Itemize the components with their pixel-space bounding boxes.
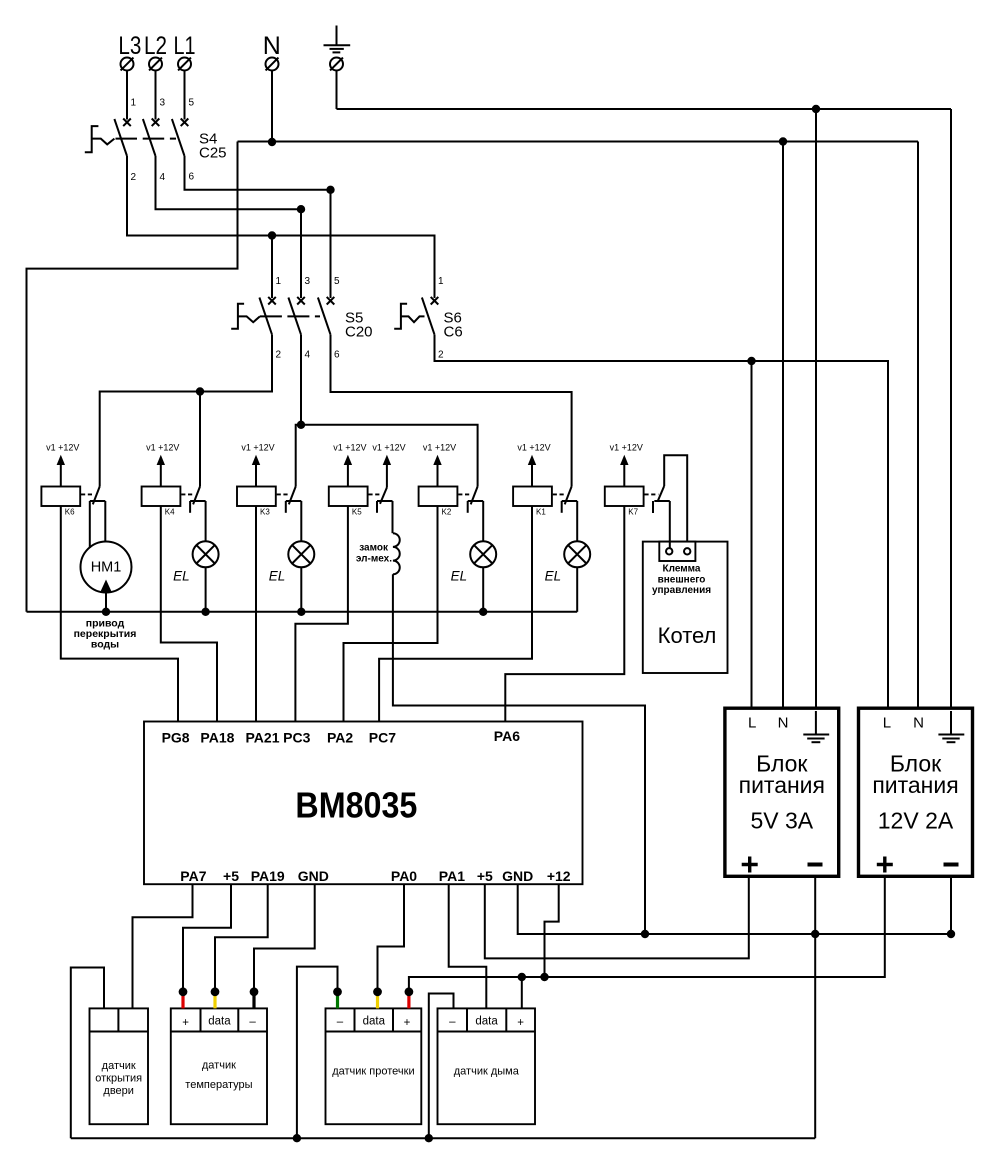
svg-text:температуры: температуры — [185, 1079, 252, 1091]
svg-text:PA0: PA0 — [391, 868, 417, 884]
wire S6 output to PSU L inputs — [435, 335, 889, 709]
breaker S6 C6 1-pole — [394, 297, 462, 341]
svg-text:PA21: PA21 — [246, 730, 280, 746]
dashed link K1 — [553, 493, 566, 495]
ground rail (bottom bus) — [71, 1137, 815, 1139]
svg-text:K6: K6 — [65, 508, 75, 517]
svg-text:data: data — [208, 1016, 231, 1028]
BM8035 bottom pin labels — [180, 868, 570, 884]
svg-text:K5: K5 — [352, 508, 362, 517]
svg-text:3: 3 — [160, 98, 166, 109]
contact fixed bar K6 — [90, 500, 106, 502]
svg-text:5: 5 — [189, 98, 195, 109]
+12V arrow for K2 coil — [423, 442, 456, 486]
svg-text:N: N — [778, 715, 789, 732]
wire down to PSU1 L input — [751, 361, 753, 708]
contact fixed bar K1 — [562, 500, 578, 502]
junction S6 output to PSU1 L — [747, 357, 755, 365]
wire K7 contact output to boiler terminal 1 — [669, 501, 671, 548]
svg-text:N: N — [263, 32, 281, 60]
svg-text:L1: L1 — [174, 32, 196, 60]
svg-text:EL: EL — [545, 569, 562, 584]
svg-text:L: L — [748, 715, 756, 732]
svg-text:питания: питания — [872, 772, 958, 798]
svg-text:K1: K1 — [536, 508, 546, 517]
lamp EL (K2 load) — [451, 501, 497, 612]
wire K5 coil to PC3 — [295, 506, 348, 722]
svg-text:12V 2A: 12V 2A — [878, 808, 954, 834]
contact fixed bar K2 — [468, 500, 484, 502]
wire N to PSU2 N input — [917, 142, 919, 709]
dashed link K7 — [644, 493, 658, 495]
relay coil K5 — [329, 487, 368, 517]
contact blade K4 — [193, 487, 200, 505]
svg-text:6: 6 — [189, 172, 195, 183]
wire K2 coil to PA2 — [344, 506, 438, 722]
wire L1 terminal to S4 pole3 — [184, 71, 186, 120]
svg-text:v1 +12V: v1 +12V — [372, 442, 405, 452]
contact fixed bar K3 — [286, 500, 302, 502]
leak sensor data stub (yellow) — [373, 987, 382, 1008]
junction L1 phase corner — [326, 186, 334, 194]
svg-text:GND: GND — [298, 868, 329, 884]
junction L3 phase to S5 pole1 — [268, 231, 276, 239]
wire PSU2 minus down — [950, 876, 952, 934]
svg-text:v1 +12V: v1 +12V — [241, 442, 274, 452]
wire PA1 to smoke sensor data — [449, 884, 487, 1008]
K7 NC stub — [652, 501, 654, 513]
+12V arrow for K5 coil — [333, 442, 366, 486]
node L2 terminal — [144, 32, 167, 71]
wire smoke sensor minus to ground rail — [429, 994, 454, 1139]
BM8035 top pin labels — [162, 728, 521, 746]
svg-text:эл-мех.: эл-мех. — [356, 554, 392, 565]
svg-text:питания: питания — [739, 772, 825, 798]
wire PE terminal down — [336, 71, 338, 110]
lamp EL (K3 load) — [269, 501, 315, 612]
NC stub K5 — [376, 501, 378, 513]
svg-text:2: 2 — [131, 172, 137, 183]
svg-text:+: + — [404, 1017, 411, 1029]
wire GND to PSU minus bus — [518, 884, 951, 934]
dashed link K4 — [181, 493, 194, 495]
wire N horizontal bus — [238, 141, 919, 143]
wire L3 terminal to S4 pole1 — [126, 71, 128, 120]
dashed link K3 — [277, 493, 290, 495]
+12V arrow for K1 coil — [517, 442, 550, 486]
junction L2 phase corner — [297, 205, 305, 213]
S4 pin numbers 1 3 5 — [131, 98, 195, 109]
svg-text:5V 3A: 5V 3A — [750, 808, 813, 834]
+12V arrow to K5 contact — [372, 442, 405, 487]
svg-text:+: + — [517, 1017, 524, 1029]
svg-text:Котел: Котел — [658, 623, 717, 648]
wire S4 pole3 output (L1 phase) — [185, 156, 331, 190]
node N terminal — [263, 32, 281, 71]
wire K4 coil to PA18 — [161, 506, 217, 722]
junction N — [268, 138, 276, 146]
junction lamp K3 to bus — [297, 608, 305, 616]
breaker S4 C25 3-pole — [85, 119, 227, 162]
svg-text:+5: +5 — [477, 868, 493, 884]
+12V arrow for K3 coil — [241, 442, 274, 486]
wire PSU1 minus down to ground rail — [814, 876, 816, 1138]
wire door sensor to ground rail — [71, 968, 104, 1139]
ground symbol (PE input) — [324, 26, 351, 53]
relay coil K3 — [237, 487, 276, 517]
svg-text:data: data — [475, 1016, 498, 1028]
svg-text:C20: C20 — [345, 324, 373, 341]
wire PE horizontal — [337, 108, 952, 110]
wire N to PSU1 N input — [782, 142, 784, 709]
contact fixed bar K7 — [654, 500, 670, 502]
temp sensor plus stub (red) — [179, 987, 188, 1008]
wire solenoid return to minus bus — [393, 574, 645, 934]
wire smoke sensor plus down — [521, 977, 523, 1008]
junction PSU1 minus on bus — [811, 930, 819, 938]
svg-text:L: L — [883, 715, 891, 732]
S4 pin numbers 2 4 6 — [131, 172, 195, 184]
svg-text:–: – — [337, 1016, 344, 1028]
wire S5 pole4 output down — [300, 335, 302, 425]
node PE terminal — [330, 58, 343, 71]
wire +5 to PSU1 plus — [485, 876, 749, 958]
junction +12 on 12V bus — [540, 973, 548, 981]
contact blade K6 — [93, 487, 100, 505]
svg-text:data: data — [363, 1016, 386, 1028]
NC stub K3 — [285, 501, 287, 513]
svg-text:PC7: PC7 — [369, 730, 396, 746]
leak sensor plus stub (red) — [405, 987, 414, 1008]
relay common bus (N) — [27, 611, 578, 613]
temp sensor data stub (yellow) — [211, 987, 220, 1008]
relay coil K1 — [513, 487, 552, 517]
svg-text:EL: EL — [451, 569, 468, 584]
svg-text:K3: K3 — [260, 508, 270, 517]
wire N terminal down — [271, 71, 273, 143]
lamp EL (K4 load) — [173, 501, 219, 612]
NC stub K4 — [189, 501, 191, 513]
svg-text:L3: L3 — [118, 32, 141, 60]
svg-text:открытия: открытия — [95, 1073, 142, 1085]
svg-text:–: – — [249, 1016, 256, 1028]
wire K1 coil to PC7 — [379, 506, 532, 722]
svg-text:C6: C6 — [444, 324, 463, 341]
contact blade K2 — [471, 487, 478, 505]
junction lamp K4 to bus — [201, 608, 209, 616]
S5 pin numbers 2 4 6 — [276, 350, 341, 361]
wire S4 pole2 output (L2 phase) — [156, 156, 302, 209]
svg-text:воды: воды — [91, 639, 119, 651]
node L1 terminal — [174, 32, 196, 71]
relay coil K4 — [142, 487, 181, 517]
svg-text:внешнего: внешнего — [658, 575, 706, 586]
12V bus from leak sensor plus to PSU2 plus — [409, 876, 885, 995]
svg-text:1: 1 — [276, 276, 282, 287]
contact blade K7 — [658, 486, 665, 502]
svg-text:6: 6 — [334, 350, 340, 361]
door opening sensor box — [90, 1008, 149, 1124]
wire PA19 to temp sensor data — [215, 884, 268, 995]
+12V arrow for K7 coil — [610, 442, 643, 486]
wire to K2 contact — [301, 425, 478, 487]
junction leak sensor minus on rail — [293, 1134, 301, 1142]
junction S5 pole4 branch — [297, 421, 305, 429]
wire S4 pole1 output (L3 phase) — [127, 156, 435, 298]
svg-text:1: 1 — [131, 98, 137, 109]
svg-text:BM8035: BM8035 — [295, 785, 417, 826]
svg-text:GND: GND — [502, 868, 533, 884]
svg-text:PA6: PA6 — [494, 728, 520, 744]
junction lamp K2 to bus — [479, 608, 487, 616]
junction smoke sensor plus on 12V bus — [518, 973, 526, 981]
NC stub K1 — [561, 501, 563, 513]
svg-text:K2: K2 — [442, 508, 452, 517]
svg-text:управления: управления — [652, 585, 711, 596]
svg-text:PA2: PA2 — [327, 730, 353, 746]
S5 pin numbers 1 3 5 — [276, 276, 341, 287]
contact blade K1 — [565, 487, 572, 505]
svg-text:EL: EL — [269, 569, 286, 584]
contact blade K3 — [289, 487, 296, 505]
wire N branch to relay common bus — [27, 142, 238, 612]
svg-text:4: 4 — [160, 172, 166, 183]
svg-text:4: 4 — [305, 350, 311, 361]
contact fixed bar K5 — [377, 500, 393, 502]
power supply 1 (5V 3A) box — [725, 708, 839, 876]
svg-text:PA7: PA7 — [180, 868, 206, 884]
svg-text:датчик: датчик — [102, 1060, 136, 1072]
dashed link K5 — [368, 493, 381, 495]
wire PA7 to door sensor — [133, 884, 193, 1008]
relay coil K7 — [605, 487, 644, 517]
svg-text:PG8: PG8 — [162, 730, 190, 746]
wire L1 phase down to S5 pole5 — [330, 190, 332, 298]
wire L3 phase down to S5 pole1 — [271, 236, 273, 299]
junction PSU2 minus on bus — [947, 930, 955, 938]
node L3 terminal — [118, 32, 141, 71]
+12V arrow for K6 coil — [46, 442, 79, 486]
wire K6 coil to PG8 — [61, 506, 178, 722]
solenoid замок эл-мех (K5 load) — [356, 501, 400, 574]
svg-text:PA1: PA1 — [439, 868, 465, 884]
svg-text:PA18: PA18 — [200, 730, 234, 746]
svg-text:+: + — [182, 1017, 189, 1029]
leak sensor minus stub (green) — [333, 987, 342, 1008]
controller BM8035 box — [144, 722, 583, 885]
svg-text:K7: K7 — [628, 508, 638, 517]
svg-text:2: 2 — [276, 350, 282, 361]
wire PE to PSU2 ground input — [950, 109, 952, 708]
power supply 2 (12V 2A) box — [859, 708, 973, 876]
svg-text:v1 +12V: v1 +12V — [423, 442, 456, 452]
temp sensor minus stub (black) — [250, 987, 259, 1008]
svg-text:Клемма: Клемма — [663, 564, 701, 575]
dashed link K2 — [458, 493, 472, 495]
lamp EL (K1 load) — [545, 501, 591, 612]
junction N to PSU1 — [779, 137, 787, 145]
junction HM1 to bus — [102, 608, 110, 616]
svg-text:3: 3 — [305, 276, 311, 287]
svg-text:EL: EL — [173, 569, 190, 584]
temperature sensor box — [171, 1008, 267, 1124]
wire GND to temp sensor minus — [254, 884, 315, 995]
svg-text:2: 2 — [438, 350, 444, 361]
smoke sensor box — [438, 1008, 536, 1124]
junction to K4 contact — [196, 387, 204, 395]
contact fixed bar K4 — [190, 500, 206, 502]
svg-text:C25: C25 — [199, 145, 227, 162]
+12V arrow for K4 coil — [146, 442, 179, 486]
svg-text:–: – — [449, 1016, 456, 1028]
wire PA0 to leak sensor data — [378, 884, 405, 995]
wire down to K4 contact — [199, 392, 201, 487]
breaker S5 C20 3-pole — [231, 297, 372, 341]
wire leak sensor minus to ground rail — [297, 967, 338, 1139]
relay coil K2 — [419, 487, 458, 517]
svg-text:HM1: HM1 — [91, 560, 122, 576]
svg-text:v1 +12V: v1 +12V — [517, 442, 550, 452]
svg-text:N: N — [913, 715, 924, 732]
dashed link K6 — [81, 493, 94, 495]
NC stub K2 — [467, 501, 469, 513]
junction smoke sensor minus on rail — [425, 1134, 433, 1142]
svg-text:датчик протечки: датчик протечки — [332, 1066, 414, 1078]
svg-text:замок: замок — [359, 543, 389, 554]
contact blade K5 — [380, 488, 387, 504]
svg-text:двери: двери — [103, 1085, 134, 1097]
wire S5 pole2 output to K6 contact — [100, 335, 272, 487]
svg-text:1: 1 — [438, 276, 444, 287]
svg-text:+5: +5 — [223, 868, 239, 884]
svg-text:датчик дыма: датчик дыма — [454, 1066, 520, 1078]
wire L2 phase down to S5 pole3 — [300, 209, 302, 298]
svg-text:v1 +12V: v1 +12V — [333, 442, 366, 452]
boiler Котел box — [643, 542, 728, 673]
wire +12 pin to 12V bus — [545, 884, 559, 977]
relay coil K6 — [41, 487, 80, 517]
wire K6 contact bar to HM1 left lead — [89, 501, 91, 548]
junction PE to PSU1 — [812, 105, 820, 113]
wire K7 coil to PA6 — [505, 506, 624, 722]
svg-text:5: 5 — [334, 276, 340, 287]
svg-text:K4: K4 — [165, 508, 175, 517]
svg-text:PA19: PA19 — [251, 868, 285, 884]
svg-text:датчик: датчик — [202, 1060, 236, 1072]
wire K3 coil to PA21 — [255, 506, 257, 722]
motor HM1 (water shutoff actuator) — [81, 501, 132, 612]
wire L2 terminal to S4 pole2 — [155, 71, 157, 120]
wire PE to PSU1 ground input — [815, 109, 817, 708]
svg-text:L2: L2 — [144, 32, 167, 60]
svg-text:v1 +12V: v1 +12V — [610, 442, 643, 452]
wire +5 to temp sensor plus — [183, 884, 231, 995]
junction solenoid return on minus bus — [641, 930, 649, 938]
svg-text:v1 +12V: v1 +12V — [146, 442, 179, 452]
svg-text:+12: +12 — [547, 868, 571, 884]
leak sensor box — [326, 1008, 422, 1124]
wire to K3 contact — [296, 425, 301, 487]
svg-text:v1 +12V: v1 +12V — [46, 442, 79, 452]
wire K7 contact to boiler terminal 2 — [664, 455, 687, 548]
svg-text:PC3: PC3 — [283, 730, 310, 746]
wire S5 pole6 output to K1 contact — [331, 335, 572, 487]
label привод перекрытия воды — [74, 618, 137, 651]
